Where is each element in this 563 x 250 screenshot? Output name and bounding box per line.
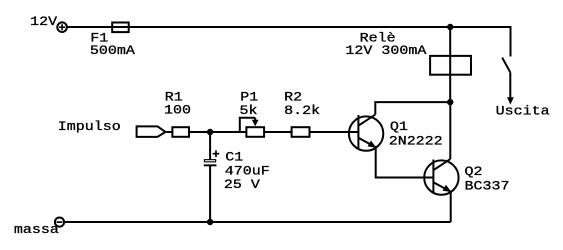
svg-text:P1: P1 <box>240 90 258 105</box>
wire switch to output arrow <box>509 72 511 98</box>
wire Q2 emitter to ground rail <box>450 192 452 222</box>
wire input row <box>167 131 359 133</box>
wire Q1 emitter to Q2 base <box>376 147 434 177</box>
terminal 12V positive <box>57 22 67 32</box>
polarity plus C1 <box>213 150 220 157</box>
svg-text:5k: 5k <box>240 104 258 119</box>
connector tag input <box>137 126 166 136</box>
transistor Q2 <box>424 159 458 195</box>
wire Q2 collector <box>449 102 451 159</box>
svg-text:12V 300mA: 12V 300mA <box>345 44 427 59</box>
svg-text:Impulso: Impulso <box>58 120 121 135</box>
resistor R1 <box>172 127 189 137</box>
potentiometer P1 <box>240 118 264 137</box>
svg-text:Q2: Q2 <box>465 165 483 180</box>
svg-text:C1: C1 <box>225 150 243 165</box>
junction ground rail / C1 <box>207 219 213 225</box>
svg-text:Uscita: Uscita <box>496 104 550 119</box>
wire top rail <box>66 26 510 28</box>
wire Q1 collector to junction <box>375 102 450 115</box>
svg-text:8.2k: 8.2k <box>284 104 320 119</box>
wire C1 bottom <box>209 165 211 222</box>
wire switch branch vertical <box>510 26 512 57</box>
svg-text:470uF: 470uF <box>225 164 270 179</box>
svg-text:12V: 12V <box>30 15 58 30</box>
svg-text:100: 100 <box>164 103 191 118</box>
svg-text:500mA: 500mA <box>90 44 136 59</box>
junction input row / C1 <box>207 129 213 135</box>
terminal massa negative <box>55 218 64 227</box>
transistor Q1 <box>349 115 383 151</box>
wire C1 top <box>209 132 211 159</box>
svg-text:massa: massa <box>14 223 59 238</box>
resistor R2 <box>292 127 310 137</box>
junction relay / Q1 collector <box>447 99 453 105</box>
svg-text:2N2222: 2N2222 <box>389 134 443 149</box>
arrowhead output Uscita <box>507 97 514 104</box>
svg-text:BC337: BC337 <box>465 179 510 194</box>
switch blade <box>502 58 510 73</box>
relay coil <box>430 56 471 75</box>
wire ground rail <box>64 221 451 223</box>
svg-text:Q1: Q1 <box>390 120 408 135</box>
fuse F1 <box>112 23 129 33</box>
svg-text:25 V: 25 V <box>224 178 261 193</box>
svg-text:R2: R2 <box>284 90 302 105</box>
junction top rail <box>447 24 453 30</box>
capacitor C1 <box>204 160 217 166</box>
wire relay branch vertical <box>449 27 451 102</box>
